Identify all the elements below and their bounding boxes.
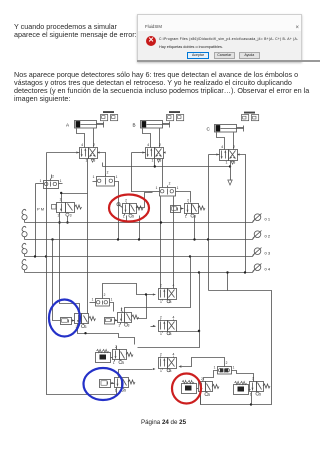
svg-text:1: 1 [156,186,158,190]
svg-text:1: 1 [123,214,125,218]
svg-text:3: 3 [128,323,130,327]
svg-text:3: 3 [259,392,261,396]
svg-text:4: 4 [221,145,223,149]
svg-text:0 3: 0 3 [265,250,271,255]
svg-text:2: 2 [104,293,106,297]
svg-text:1: 1 [160,300,162,304]
svg-text:1: 1 [60,179,62,183]
svg-text:2: 2 [226,361,228,365]
svg-text:2: 2 [187,199,189,203]
svg-text:3: 3 [122,361,124,365]
svg-text:1: 1 [115,388,117,392]
svg-text:1: 1 [118,323,120,327]
svg-text:1: 1 [93,175,95,179]
svg-text:2: 2 [233,145,235,149]
svg-text:0 1: 0 1 [265,216,271,221]
svg-text:0 2: 0 2 [265,233,271,238]
svg-text:1: 1 [177,186,179,190]
svg-text:4: 4 [81,143,83,147]
svg-text:2: 2 [107,171,109,175]
svg-text:3: 3 [208,393,210,397]
svg-text:1: 1 [92,298,94,302]
svg-text:C: C [207,127,211,132]
svg-text:2: 2 [93,143,95,147]
svg-text:2: 2 [160,352,162,356]
svg-text:2: 2 [159,143,161,147]
svg-text:1: 1 [233,366,235,370]
svg-text:2: 2 [252,377,254,381]
svg-text:1: 1 [160,332,162,336]
svg-text:1: 1 [226,161,228,165]
svg-text:4: 4 [173,315,175,319]
svg-text:2: 2 [160,315,162,319]
svg-text:1: 1 [116,175,118,179]
svg-text:3: 3 [124,388,126,392]
svg-text:2: 2 [52,175,54,179]
svg-text:4: 4 [147,143,149,147]
svg-text:1: 1 [160,369,162,373]
svg-text:1: 1 [113,361,115,365]
svg-text:1: 1 [40,179,42,183]
svg-text:4: 4 [173,352,175,356]
svg-text:2: 2 [125,199,127,203]
svg-text:3: 3 [70,213,72,217]
svg-text:1: 1 [111,298,113,302]
svg-text:P M: P M [37,207,44,212]
svg-text:1: 1 [152,159,154,163]
svg-text:3: 3 [132,214,134,218]
svg-text:2: 2 [169,182,171,186]
svg-text:A: A [66,123,70,128]
svg-text:1: 1 [214,366,216,370]
svg-text:B: B [133,123,136,128]
svg-text:0 4: 0 4 [265,266,271,271]
svg-text:3: 3 [85,325,87,329]
svg-text:1: 1 [185,214,187,218]
